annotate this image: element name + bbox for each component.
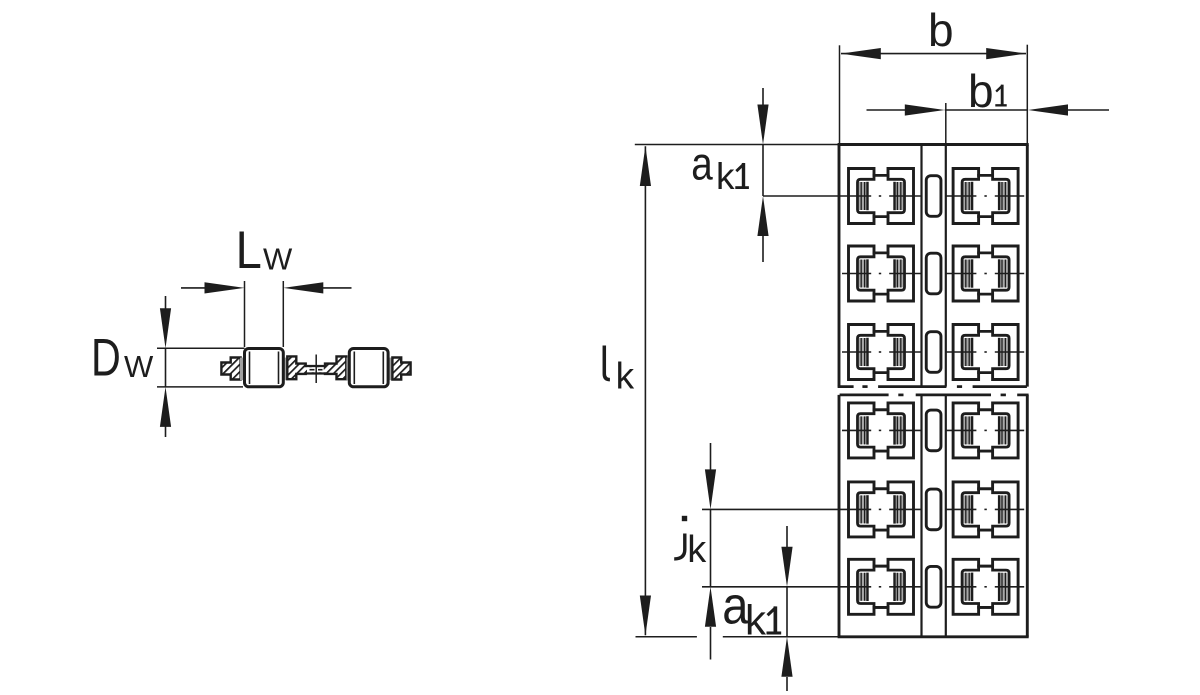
label jk (674, 516, 687, 559)
cage piece 1 right edge (1026, 145, 1029, 387)
row 2 center line (dash-dot) (842, 273, 1024, 275)
center slot row 3 (926, 332, 941, 373)
lk / ak1 bottom extension line (636, 636, 697, 638)
dimension lk line (644, 146, 646, 635)
svg-text:W: W (124, 349, 154, 384)
pocket row 6 left (849, 559, 914, 614)
dimension b arrowheads (841, 48, 881, 59)
dimension jk: stem, through line, arrowheads (710, 443, 712, 471)
cage center rib line left, piece 2 (920, 395, 922, 637)
cage piece 1 break line (dash-dot) (838, 385, 1027, 388)
pocket row 3 left (849, 325, 914, 380)
dimension Lw extension lines (244, 281, 246, 347)
label lk (604, 346, 610, 380)
pocket row 2 left (849, 246, 914, 301)
cage center rib line right, piece 2 (945, 395, 947, 637)
svg-text:b: b (968, 65, 994, 117)
dimension b1 extension line (945, 103, 947, 145)
dimension b line (841, 53, 1026, 55)
svg-text:b: b (928, 4, 954, 56)
dimension Lw arrow stems (181, 287, 208, 289)
center slot row 6 (926, 566, 941, 607)
dimension b1 arrowheads (905, 104, 945, 115)
row 1 center line (dash-dot) (763, 195, 1024, 197)
svg-text:k: k (745, 597, 767, 644)
cage bottom edge (838, 635, 1029, 638)
gray pad right of roller 2 (388, 358, 393, 381)
svg-text:L: L (236, 221, 262, 280)
center tick between rollers (315, 355, 317, 384)
pocket row 5 right (953, 482, 1018, 537)
cage center rib line right, piece 1 (945, 145, 947, 387)
axis dashes between rollers (310, 369, 315, 371)
svg-text:a: a (691, 137, 713, 189)
row 4 center line (dash-dot) (842, 429, 1024, 431)
gray pad right of roller 1 (283, 358, 288, 381)
pocket row 5 left (849, 482, 914, 537)
svg-text:k: k (716, 156, 735, 197)
lk top extension line (635, 144, 840, 146)
svg-text:k: k (687, 529, 707, 571)
dimension ak1 bottom: stem, through line, arrowheads (786, 526, 788, 548)
cage top edge (838, 143, 1029, 146)
pocket row 4 right (953, 403, 1018, 458)
pocket row 2 right (953, 246, 1018, 301)
svg-text:k: k (616, 356, 635, 397)
dimension Dw arrowheads (160, 308, 171, 348)
center slot row 5 (926, 489, 941, 530)
cage piece 2 right edge (1026, 395, 1029, 637)
cage section right end piece (hatched) (392, 358, 410, 380)
cage piece 1 left edge (838, 145, 841, 387)
cage section left end piece (hatched) (221, 358, 240, 380)
center slot row 1 (926, 176, 941, 217)
dimension b1 line and stems (867, 109, 907, 111)
center slot row 4 (926, 410, 941, 451)
row 5 center line (dash-dot), jk upper extension (702, 508, 1024, 510)
dimension Lw arrowheads (205, 282, 245, 293)
pocket row 1 left (849, 169, 914, 224)
svg-text:D: D (91, 329, 121, 388)
dimension b extension lines (839, 45, 841, 143)
row 6 center line (dash-dot), jk lower extension (702, 586, 1024, 588)
row 3 center line (dash-dot) (842, 351, 1024, 353)
dimension Dw extension line bottom (157, 386, 243, 388)
cage center rib line left, piece 1 (920, 145, 922, 387)
dimension ak1 top: stem, through line, arrowheads (762, 88, 764, 106)
gray pad left of roller 2 (346, 358, 351, 381)
pocket row 3 right (953, 325, 1018, 380)
pocket row 4 left (849, 403, 914, 458)
roller 1 (245, 349, 284, 387)
gray pad left of roller 1 (240, 358, 245, 381)
dimension Dw arrow stems (165, 296, 167, 310)
pocket row 6 right (953, 559, 1018, 614)
cage piece 2 left edge (838, 395, 841, 637)
svg-text:W: W (263, 242, 293, 277)
cage piece 2 break line (dash-dot) (840, 394, 1029, 397)
roller 2 (349, 349, 388, 387)
dimension Dw extension line top (157, 347, 245, 349)
cage web between rollers (hatched) (287, 356, 346, 379)
center slot row 2 (926, 253, 941, 294)
pocket row 1 right (953, 169, 1018, 224)
